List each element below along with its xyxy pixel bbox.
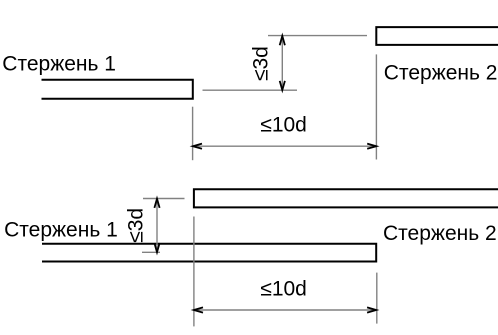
arrow up (bottom ≤3d) bbox=[154, 199, 159, 208]
dimension line ≤3d (bottom diagram) bbox=[156, 199, 158, 253]
svg-text:Стержень 2: Стержень 2 bbox=[384, 62, 498, 85]
bar 1 (bottom diagram, rod Стержень 1) bbox=[42, 244, 376, 262]
bar 2 (top diagram, rod Стержень 2) bbox=[376, 27, 498, 45]
dimension line ≤3d (top diagram) bbox=[281, 36, 283, 90]
arrow left (top ≤10d) bbox=[193, 144, 202, 149]
arrow right (bottom ≤10d) bbox=[367, 307, 376, 312]
arrow up (top ≤3d) bbox=[280, 36, 285, 45]
extension line left (bottom ≤10d) bbox=[193, 217, 195, 327]
arrow left (bottom ≤10d) bbox=[194, 307, 203, 312]
svg-text:≤3d: ≤3d bbox=[250, 46, 273, 81]
svg-text:≤10d: ≤10d bbox=[260, 277, 307, 300]
arrow down (bottom ≤3d) bbox=[154, 243, 159, 252]
extension line right (bottom ≤10d) bbox=[376, 273, 378, 324]
svg-text:≤3d: ≤3d bbox=[124, 208, 147, 243]
arrow right (top ≤10d) bbox=[367, 144, 376, 149]
svg-text:≤10d: ≤10d bbox=[260, 113, 307, 136]
bar 1 (top diagram, rod Стержень 1) bbox=[42, 80, 193, 99]
axis extension line of bar 2 (top diagram) bbox=[268, 35, 367, 37]
svg-text:Стержень 2: Стержень 2 bbox=[383, 222, 497, 245]
arrow down (top ≤3d) bbox=[280, 81, 285, 90]
dimension line ≤10d (bottom diagram) bbox=[194, 309, 376, 311]
bar 2 (bottom diagram, rod Стержень 2) bbox=[194, 189, 498, 207]
svg-text:Стержень 1: Стержень 1 bbox=[4, 219, 118, 242]
axis extension line of bar 1 (top diagram) bbox=[203, 89, 298, 91]
extension line right (top ≤10d) bbox=[375, 54, 377, 159]
extension line left (top ≤10d) bbox=[192, 107, 194, 161]
dimension line ≤10d (top diagram) bbox=[193, 145, 377, 147]
axis tick of bar 1 (bottom diagram) bbox=[142, 251, 160, 253]
svg-text:Стержень 1: Стержень 1 bbox=[2, 53, 116, 76]
axis extension line of bar 2 (bottom diagram) bbox=[143, 198, 185, 200]
